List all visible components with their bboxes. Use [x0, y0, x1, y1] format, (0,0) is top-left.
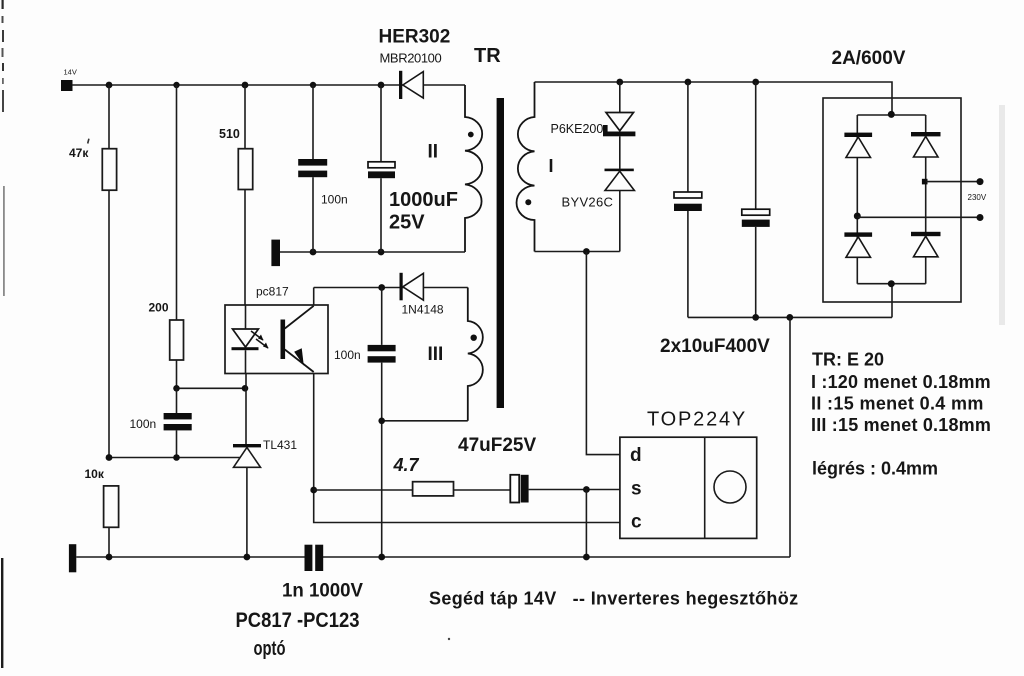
svg-text:I :120 menet 0.18mm: I :120 menet 0.18mm — [811, 372, 991, 392]
wire primary bottom rail — [688, 316, 892, 318]
svg-text:1000uF: 1000uF — [389, 189, 458, 211]
bridge diode bottom-right — [911, 232, 941, 257]
svg-text:légrés : 0.4mm: légrés : 0.4mm — [812, 459, 938, 479]
svg-text:MBR20100: MBR20100 — [380, 51, 442, 66]
svg-text:I: I — [549, 156, 554, 176]
svg-text:2x10uF400V: 2x10uF400V — [660, 336, 770, 357]
node junction dots on 14V rail — [106, 82, 113, 89]
svg-text:47uF25V: 47uF25V — [458, 435, 536, 456]
capacitor 47uF25V — [458, 435, 536, 503]
diode BYV26C — [562, 136, 635, 251]
svg-text:510: 510 — [219, 127, 240, 141]
resistor 47k — [69, 85, 117, 458]
svg-text:10к: 10к — [85, 467, 105, 481]
svg-text:optó: optó — [254, 638, 286, 660]
svg-text:100n: 100n — [334, 348, 361, 362]
TVS P6KE200 — [551, 82, 636, 136]
wire s to ground rail — [585, 490, 587, 558]
wire C (200 to opto LED column) — [177, 387, 246, 389]
capacitor 100n (winding III snubber) — [334, 288, 396, 558]
ground bar (secondary) — [271, 240, 280, 267]
transformer core — [497, 98, 504, 408]
svg-text:2A/600V: 2A/600V — [832, 48, 906, 69]
svg-text:d: d — [630, 445, 642, 466]
scan smudge right of bridge — [999, 105, 1005, 325]
wire s pin — [529, 489, 620, 491]
svg-text:100n: 100n — [130, 417, 157, 431]
bottom ground rail — [76, 556, 304, 558]
winding I — [517, 82, 554, 252]
bridge rectifier box 2A/600V — [823, 48, 961, 302]
svg-text:4.7: 4.7 — [393, 455, 420, 475]
svg-text:TR: E 20: TR: E 20 — [812, 350, 884, 370]
bridge diode top-right — [911, 132, 941, 157]
resistor 4.7 — [393, 455, 511, 496]
svg-text:25V: 25V — [389, 212, 425, 234]
svg-text:1n 1000V: 1n 1000V — [282, 580, 363, 602]
bridge diode bottom-left — [844, 232, 872, 257]
winding II — [428, 85, 483, 252]
stray mark — [448, 638, 450, 640]
svg-text:HER302: HER302 — [379, 27, 451, 48]
svg-text:Segéd táp 14V -- Inverteres: Segéd táp 14V -- Inverteres hegesztőhöz — [429, 589, 798, 609]
svg-text:TR: TR — [474, 45, 501, 67]
svg-text:III :15 menet 0.18mm: III :15 menet 0.18mm — [811, 415, 991, 435]
resistor 10k — [85, 467, 119, 557]
svg-text:47к: 47к — [69, 146, 89, 160]
svg-text:pc817: pc817 — [256, 285, 289, 299]
IC TOP224Y — [620, 409, 757, 539]
wire B (divider node to TL431 ref) — [109, 457, 241, 459]
output node and wire 230V bottom — [854, 193, 987, 221]
svg-text:1N4148: 1N4148 — [402, 303, 444, 317]
svg-text:III: III — [428, 344, 444, 365]
svg-text:BYV26C: BYV26C — [562, 195, 614, 210]
wire D (opto collector / 100n / 1N4148) — [314, 287, 468, 289]
transformer spec text block — [811, 350, 991, 479]
ground bar (primary rail left) — [69, 544, 76, 572]
svg-text:P6KE200: P6KE200 — [551, 122, 604, 136]
capacitor 10uF/400V no.1 — [674, 82, 702, 317]
shunt regulator TL431 — [233, 374, 297, 558]
opto light arrows — [251, 331, 268, 348]
wire E (winding III bottom return) — [382, 420, 468, 422]
opto transistor — [281, 320, 286, 360]
capacitor 10uF/400V no.2 — [742, 82, 770, 317]
resistor 510 — [219, 85, 253, 305]
capacitor 1000uF 25V — [368, 85, 458, 252]
svg-text:PC817 -PC123: PC817 -PC123 — [236, 609, 360, 632]
diode HER302 / MBR20100 — [379, 27, 451, 100]
opto LED — [233, 329, 259, 347]
optocoupler PC817 — [225, 285, 328, 374]
diode 1N4148 — [400, 273, 444, 317]
output node and wire 230V top — [922, 178, 984, 185]
svg-text:200: 200 — [149, 301, 169, 315]
svg-text:230V: 230V — [968, 193, 987, 202]
wire top rail left (14V rail) — [72, 84, 465, 86]
wire c pin — [314, 490, 620, 523]
wire opto emitter node — [313, 374, 315, 491]
svg-text:100n: 100n — [321, 193, 348, 207]
wire top rail primary — [535, 82, 893, 114]
capacitor 100n (output) — [298, 85, 348, 252]
svg-text:II: II — [428, 142, 439, 163]
resistor 200 — [149, 85, 184, 388]
svg-text:c: c — [631, 512, 642, 533]
capacitor 1n 1000V — [282, 545, 363, 602]
terminal 14V — [61, 68, 77, 92]
scan edge artifacts left — [1, 0, 5, 668]
bridge inner wires — [857, 111, 925, 318]
winding III — [428, 288, 483, 421]
svg-text:II :15 menet 0.4 mm: II :15 menet 0.4 mm — [811, 394, 984, 414]
capacitor 100n (feedback) — [130, 388, 192, 457]
svg-text:14V: 14V — [64, 68, 77, 77]
wire d pin to primary — [586, 252, 620, 455]
wire primary bottom (winding I to clamp) — [535, 251, 620, 253]
bridge diode top-left — [844, 133, 872, 158]
wire winding II bottom return — [280, 251, 465, 253]
svg-text:s: s — [631, 479, 642, 500]
svg-text:TOP224Y: TOP224Y — [647, 409, 747, 431]
svg-text:TL431: TL431 — [263, 438, 297, 452]
